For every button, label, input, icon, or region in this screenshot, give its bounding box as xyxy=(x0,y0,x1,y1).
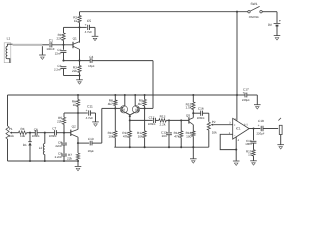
wire R4 to C6 xyxy=(27,132,36,134)
svg-text:4.7uF: 4.7uF xyxy=(85,30,93,34)
svg-text:C5: C5 xyxy=(87,19,91,23)
resistor R2 1k xyxy=(79,12,81,16)
svg-text:22nF: 22nF xyxy=(55,52,62,56)
ground zobel xyxy=(250,160,257,162)
svg-text:2.2nF: 2.2nF xyxy=(54,68,62,72)
svg-text:22k: 22k xyxy=(67,156,72,160)
svg-text:P2: P2 xyxy=(212,120,216,124)
capacitor C19 100nF zobel xyxy=(253,129,255,141)
node Q2 emitter junction xyxy=(77,142,79,144)
node C13 top xyxy=(168,119,170,121)
svg-text:P1: P1 xyxy=(9,127,13,131)
wire node to C5 xyxy=(80,26,87,28)
node L2 bottom xyxy=(44,160,46,162)
svg-text:100: 100 xyxy=(186,134,191,138)
svg-text:C12: C12 xyxy=(149,115,155,119)
wire base node up to R5 xyxy=(63,124,65,132)
ground coax shield xyxy=(39,54,46,56)
resistor R11 47k emitter xyxy=(129,120,131,130)
node battery/switch junction xyxy=(236,11,238,13)
wire V+ feed right column xyxy=(236,12,238,95)
wire coax shielded cable xyxy=(13,44,43,46)
capacitor C6 100nF xyxy=(34,130,36,135)
resistor R5 22k xyxy=(62,117,65,124)
ground C17 xyxy=(254,104,261,106)
node rail R16 xyxy=(192,146,194,148)
svg-text:100nF: 100nF xyxy=(197,116,205,120)
node D1 bottom xyxy=(29,160,31,162)
svg-text:C6: C6 xyxy=(34,128,38,132)
node R9 top xyxy=(144,94,146,96)
inductor L2 xyxy=(44,133,46,144)
svg-text:C10: C10 xyxy=(88,137,94,141)
svg-text:+: + xyxy=(258,124,260,128)
resistor R4 10k xyxy=(19,131,27,134)
node output junction xyxy=(252,127,254,129)
node R6 bottom xyxy=(77,112,79,114)
resistor R6 1k xyxy=(77,94,79,96)
svg-text:4k7: 4k7 xyxy=(138,102,143,106)
svg-text:4.7uF: 4.7uF xyxy=(86,116,94,120)
svg-text:C1: C1 xyxy=(49,38,53,42)
transistor Q4 xyxy=(132,106,139,113)
wire osc1 output xyxy=(64,60,91,62)
svg-text:10: 10 xyxy=(248,153,252,157)
node rail R14 xyxy=(180,146,182,148)
node R2 bottom collector node xyxy=(79,23,81,43)
wire R9 node to Q4 base xyxy=(140,107,145,109)
wire coax to C1 xyxy=(42,44,49,46)
wire C11 to ground xyxy=(91,112,96,114)
node R14 top xyxy=(180,119,182,121)
wire Q2 emitter down xyxy=(77,137,79,153)
resistor R7 22k xyxy=(76,153,79,160)
resistor R8 4k7 xyxy=(114,100,117,106)
wire mid ground rail xyxy=(114,146,209,148)
resistor R13 2.2k xyxy=(159,119,167,122)
resistor R12 10k xyxy=(144,108,146,130)
wire R8 node to Q3 base xyxy=(115,107,120,109)
capacitor C17 220uF supply xyxy=(237,94,245,96)
wire op-amp output xyxy=(249,128,260,130)
potentiometer P1 10k xyxy=(6,126,9,139)
wire P2 wiper to op-amp xyxy=(213,124,233,126)
node C2 C3 tap xyxy=(62,60,64,62)
wire feedback inverting input xyxy=(220,134,236,149)
capacitor C12 100nF xyxy=(153,118,155,123)
resistor R3 22k xyxy=(78,66,81,73)
svg-text:+: + xyxy=(85,23,87,27)
svg-text:220µF: 220µF xyxy=(242,98,250,102)
wire joined emitters xyxy=(126,113,130,121)
svg-text:10n: 10n xyxy=(161,134,166,138)
svg-text:10µF: 10µF xyxy=(88,64,95,68)
wire switch to battery xyxy=(262,11,277,13)
wire Q3 collector xyxy=(124,95,126,106)
svg-text:47k: 47k xyxy=(174,134,179,138)
svg-text:C18: C18 xyxy=(258,119,264,123)
node rail R11 xyxy=(129,146,131,148)
svg-text:1.5k: 1.5k xyxy=(185,106,191,110)
svg-text:100nF: 100nF xyxy=(148,122,156,126)
svg-text:10k: 10k xyxy=(108,134,113,138)
svg-text:SW1: SW1 xyxy=(250,2,257,6)
transistor Q3 xyxy=(120,106,127,113)
svg-text:10k: 10k xyxy=(138,134,143,138)
wire R1 to top node xyxy=(63,27,65,33)
svg-text:10k: 10k xyxy=(20,134,25,138)
wire Q5 collector to C16 xyxy=(193,112,200,114)
svg-text:22k: 22k xyxy=(72,69,77,73)
node R3 bottom xyxy=(78,74,80,76)
wire C10 to mixer xyxy=(92,142,102,144)
svg-text:10k: 10k xyxy=(9,134,14,138)
ground C11 xyxy=(92,121,99,123)
capacitor C3 2.2nF xyxy=(61,66,67,68)
svg-text:−: − xyxy=(234,133,236,137)
capacitor C13 10nF xyxy=(168,120,170,132)
svg-text:22nF: 22nF xyxy=(55,144,62,148)
node D1 top xyxy=(29,132,31,134)
svg-text:IC1: IC1 xyxy=(236,127,241,131)
svg-text:+: + xyxy=(279,19,281,23)
svg-text:47k: 47k xyxy=(123,134,128,138)
svg-text:22k: 22k xyxy=(57,119,62,123)
node C9 bottom xyxy=(63,160,65,162)
svg-text:1k: 1k xyxy=(74,19,78,23)
resistor R9 4k7 xyxy=(143,100,146,107)
wire rail ground stem xyxy=(192,147,194,158)
svg-text:Q1: Q1 xyxy=(73,37,77,41)
wire C5 to ground xyxy=(90,26,96,28)
ground battery xyxy=(274,35,281,37)
node L2 top xyxy=(44,132,46,134)
resistor R16 100 emitter xyxy=(192,125,194,131)
node Q3 collector rail xyxy=(124,94,126,96)
node Q1 base xyxy=(62,44,64,46)
wire C4 to mixer xyxy=(92,60,153,62)
resistor R15 1.5k xyxy=(192,95,194,102)
node Q4 base node xyxy=(144,107,146,109)
svg-text:R4: R4 xyxy=(21,127,25,131)
capacitor C16 100nF xyxy=(200,111,202,116)
node V- feedback junction xyxy=(235,149,237,151)
node R15 top xyxy=(192,94,194,96)
op-amp IC1 xyxy=(233,118,249,139)
svg-text:100n: 100n xyxy=(245,142,252,146)
jack J1 output xyxy=(278,118,281,121)
svg-text:4k7: 4k7 xyxy=(108,102,113,106)
svg-text:100nF: 100nF xyxy=(46,47,54,51)
node emitter junction xyxy=(129,115,131,117)
wire coax shield to ground xyxy=(41,46,43,55)
svg-text:C11: C11 xyxy=(87,104,93,108)
wire Q4 collector xyxy=(134,95,136,106)
node Q2 base xyxy=(63,132,65,134)
capacitor C18 220uF output xyxy=(260,126,262,131)
node V+ rail end xyxy=(236,94,238,96)
wire op-amp V+ pin xyxy=(236,95,238,121)
ground C5 xyxy=(92,35,99,37)
wire C6 to C7 xyxy=(37,132,55,134)
svg-text:2.2k: 2.2k xyxy=(160,122,166,126)
svg-text:D1: D1 xyxy=(23,143,27,147)
wire C12 to R13 xyxy=(155,119,158,121)
capacitor C5 4.7uF xyxy=(87,25,89,30)
svg-text:22k: 22k xyxy=(57,37,62,41)
capacitor C11 4.7uF xyxy=(88,110,90,115)
capacitor C9 2.2nF xyxy=(61,153,67,155)
svg-text:ON/OFF: ON/OFF xyxy=(249,15,260,19)
wire R13 to Q5 base xyxy=(166,119,189,121)
svg-text:100nF: 100nF xyxy=(49,134,57,138)
node Q4 collector rail xyxy=(134,94,136,96)
wire base node up to R1 xyxy=(63,41,65,45)
ground Q1 emitter network xyxy=(76,79,83,81)
svg-text:2.2nF: 2.2nF xyxy=(55,155,63,159)
capacitor C7 100nF xyxy=(54,130,56,135)
wire Q1 emitter down xyxy=(79,49,81,65)
wire op-amp V- pin to ground xyxy=(235,137,237,161)
svg-text:C16: C16 xyxy=(198,107,204,111)
capacitor C1 100nF xyxy=(49,42,51,47)
switch SW1 xyxy=(248,11,250,13)
node R8 top xyxy=(114,94,116,96)
wire R7 ground stem xyxy=(77,161,79,166)
ground mid rail xyxy=(190,158,197,160)
svg-text:Q5: Q5 xyxy=(186,113,190,117)
node Q5 collector xyxy=(192,112,194,114)
svg-text:L1: L1 xyxy=(7,37,11,41)
resistor R17 10 zobel xyxy=(253,143,255,150)
battery BT1 9V xyxy=(274,22,281,24)
node rail C13 xyxy=(168,146,170,148)
wire C1 to Q1 base xyxy=(52,44,73,46)
svg-text:R13: R13 xyxy=(160,115,166,119)
svg-text:C4: C4 xyxy=(89,55,93,59)
resistor R14 47k xyxy=(180,120,182,130)
svg-text:Q2: Q2 xyxy=(72,124,76,128)
svg-text:L2: L2 xyxy=(39,146,43,150)
inductor L1 search coil xyxy=(4,43,11,63)
capacitor C2 22nF xyxy=(63,45,65,50)
node rail R12 xyxy=(144,146,146,148)
capacitor C8 22nF xyxy=(63,133,65,143)
svg-text:10k: 10k xyxy=(212,131,217,135)
capacitor C4 10uF coupling xyxy=(89,58,91,63)
wire node to C11 xyxy=(78,112,88,114)
wire mixer output xyxy=(130,119,153,121)
svg-text:1k: 1k xyxy=(73,103,77,107)
svg-text:10µF: 10µF xyxy=(88,149,95,153)
wire left edge P1 column xyxy=(7,95,9,126)
svg-text:220µF: 220µF xyxy=(257,131,265,135)
potentiometer P2 10k xyxy=(207,122,210,130)
resistor R10 10k xyxy=(114,108,116,130)
capacitor C10 10uF coupling xyxy=(78,142,89,144)
svg-text:100nF: 100nF xyxy=(32,134,40,138)
varicap D1 xyxy=(29,133,31,142)
resistor R1 22k xyxy=(62,33,65,41)
svg-text:+: + xyxy=(86,109,88,113)
wire top V+ rail xyxy=(80,11,248,13)
wire C7 to Q2 base xyxy=(56,132,70,134)
ground op-amp xyxy=(233,160,240,162)
svg-text:+: + xyxy=(243,91,245,95)
svg-text:C7: C7 xyxy=(52,126,56,130)
node Q3 base node xyxy=(114,107,116,109)
ground jack xyxy=(277,144,284,146)
ground bottom-left section xyxy=(75,165,82,167)
wire bottom ground rail xyxy=(8,160,80,162)
wire C16 to P2 xyxy=(203,112,209,114)
svg-text:+: + xyxy=(234,123,236,127)
wire mid V+ rail xyxy=(8,94,238,96)
node Q1 emitter junction xyxy=(78,60,80,62)
